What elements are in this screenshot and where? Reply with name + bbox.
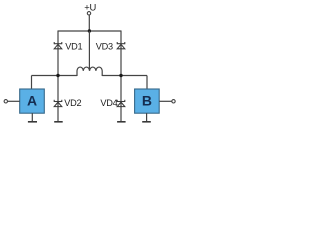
svg-text:VD1: VD1 (65, 41, 82, 51)
wire inductor center tap (88, 31, 90, 71)
wire block B to terminal (159, 100, 171, 102)
junction dot right branch / middle rail (119, 74, 122, 77)
block B (135, 89, 160, 113)
wire middle rail left (32, 75, 78, 77)
diode VD4 (117, 100, 125, 107)
svg-text:VD3: VD3 (96, 41, 113, 51)
wire top rail (58, 30, 122, 32)
wire riser to block A (31, 76, 33, 90)
junction dot left branch / middle rail (56, 74, 59, 77)
wire right branch vertical (120, 31, 122, 122)
terminal output B circle (172, 100, 175, 103)
ground under block B (142, 121, 151, 123)
ground under VD4 (117, 121, 126, 123)
ground under block A (28, 121, 37, 123)
svg-text:VD4: VD4 (100, 98, 117, 108)
terminal +U circle (87, 12, 90, 15)
svg-text:+U: +U (84, 2, 96, 13)
terminal input A circle (4, 100, 7, 103)
diode VD2 (54, 100, 62, 107)
inductor L1 center-tapped (77, 67, 102, 76)
wire left branch vertical (57, 31, 59, 122)
svg-text:A: A (27, 93, 37, 109)
svg-text:B: B (142, 93, 152, 109)
diode VD3 (117, 42, 125, 49)
ground under VD2 (54, 121, 63, 123)
wire riser to block B (146, 76, 148, 90)
junction dot at +U and top rail (88, 29, 91, 32)
wire terminal to block A (8, 100, 20, 102)
diode VD1 (54, 42, 62, 49)
block A (20, 89, 45, 113)
wire block A to ground (31, 113, 33, 121)
wire middle rail right (102, 75, 147, 77)
wire from +U terminal to top rail (88, 15, 90, 31)
svg-text:VD2: VD2 (64, 98, 81, 108)
wire block B to ground (146, 113, 148, 121)
